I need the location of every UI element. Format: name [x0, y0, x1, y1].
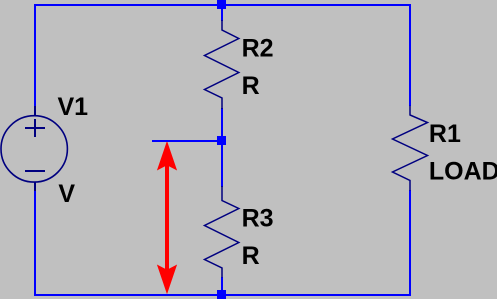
node bottom junction	[217, 290, 226, 299]
svg-text:R1: R1	[429, 120, 461, 148]
voltage source V1 minus sign	[25, 170, 45, 172]
voltage source V1 bottom pin	[34, 182, 36, 191]
svg-text:R: R	[242, 72, 260, 100]
resistor R2 zigzag	[205, 20, 239, 109]
wire top	[34, 4, 411, 6]
svg-text:R2: R2	[242, 35, 274, 63]
wire stub (wiper tap)	[152, 140, 223, 142]
svg-text:R3: R3	[242, 205, 274, 233]
wire left upper	[34, 4, 36, 106]
red wiper arrow shaft	[165, 164, 169, 270]
wire right upper	[409, 4, 411, 106]
voltage source V1 top pin	[34, 106, 36, 116]
wire middle branch (R2 to middle node)	[221, 108, 223, 142]
wire middle branch lower (R3 to bottom node)	[221, 277, 223, 296]
wire middle branch (middle node to R3)	[221, 142, 223, 187]
wire bottom	[34, 294, 411, 296]
wire left lower	[34, 190, 36, 296]
red wiper arrow head down	[157, 265, 177, 295]
svg-text:V1: V1	[58, 93, 89, 121]
resistor R3 zigzag	[205, 186, 239, 278]
svg-text:V: V	[58, 180, 75, 208]
node middle junction	[217, 136, 226, 145]
node top junction	[217, 0, 226, 9]
red wiper arrow head up	[157, 141, 177, 171]
wire middle branch upper (top node to R2)	[221, 4, 223, 21]
voltage source V1 circle	[1, 116, 67, 182]
resistor R1 zigzag	[393, 106, 428, 191]
wire right lower	[409, 190, 411, 296]
svg-text:R: R	[242, 242, 260, 270]
svg-text:LOAD: LOAD	[429, 157, 497, 185]
voltage source V1 plus sign	[34, 119, 36, 137]
